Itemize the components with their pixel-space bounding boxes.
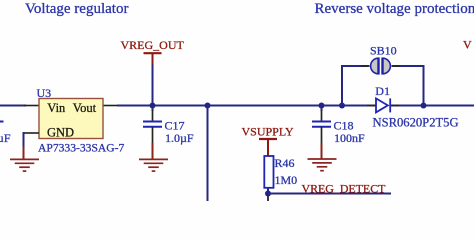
pin C17 top bbox=[152, 110, 154, 121]
wire to C18 bbox=[321, 106, 323, 112]
power port VSUPPLY bar bbox=[259, 138, 277, 140]
wire ground red segment U3 bbox=[23, 147, 25, 160]
junction dot C18 bbox=[319, 103, 325, 109]
pin SB10 right bbox=[392, 65, 401, 67]
capacitor C17 bbox=[143, 122, 162, 127]
wire ground red segment C18 bbox=[321, 143, 323, 159]
solder bridge SB10 bbox=[371, 58, 391, 75]
power port VREG_OUT stem bbox=[152, 53, 154, 65]
pin U3 Vout bbox=[103, 105, 119, 107]
junction dot VREG_DETECT bbox=[265, 191, 271, 197]
svg-text:VREG_OUT: VREG_OUT bbox=[121, 38, 185, 52]
svg-text:U3: U3 bbox=[37, 86, 52, 100]
junction dot SB10 right riser bbox=[421, 103, 427, 109]
svg-text:Voltage regulator: Voltage regulator bbox=[25, 1, 128, 17]
wire R46 to VREG_DETECT net bbox=[267, 188, 269, 194]
svg-text:NSR0620P2T5G: NSR0620P2T5G bbox=[373, 116, 459, 130]
pin off-page below junction bbox=[267, 194, 269, 201]
resistor R46 bbox=[264, 156, 273, 188]
wire down off-page bbox=[207, 106, 209, 202]
ground symbol C17 bbox=[139, 159, 168, 171]
svg-text:Reverse voltage protection: Reverse voltage protection bbox=[315, 1, 474, 17]
diode D1 bbox=[376, 98, 390, 112]
svg-text:R46: R46 bbox=[275, 156, 295, 170]
pin D1 anode bbox=[367, 105, 376, 107]
wire to C17 bbox=[152, 106, 154, 112]
svg-text:VSUPPLY: VSUPPLY bbox=[242, 125, 294, 139]
svg-text:AP7333-33SAG-7: AP7333-33SAG-7 bbox=[38, 142, 125, 155]
wire ground red segment C17 bbox=[152, 143, 154, 160]
ground symbol C18 bbox=[308, 159, 337, 171]
capacitor plate fragment left edge bbox=[0, 121, 4, 123]
capacitor C18 bbox=[312, 122, 331, 127]
svg-text:100nF: 100nF bbox=[334, 131, 365, 145]
pin U3 Vin bbox=[24, 105, 39, 107]
junction dot VREG_OUT / C17 bbox=[150, 103, 156, 109]
pin SB10 left bbox=[361, 65, 370, 67]
component U3 body bbox=[39, 99, 103, 139]
pin U3 GND bbox=[24, 132, 39, 134]
power port VREG_OUT bar bbox=[144, 52, 162, 54]
wire VREG_OUT to main net bbox=[152, 65, 154, 106]
power port VSUPPLY stem bbox=[267, 139, 269, 156]
pin C18 top bbox=[321, 110, 323, 121]
wire main net from diode cathode to right edge bbox=[390, 105, 474, 107]
wire SB10 left riser bbox=[342, 66, 369, 106]
svg-text:Vin: Vin bbox=[47, 101, 66, 115]
svg-text:V: V bbox=[463, 38, 472, 52]
wire VREG_DETECT bbox=[268, 193, 391, 195]
junction dot SB10 left riser bbox=[339, 103, 345, 109]
svg-text:Vout: Vout bbox=[73, 101, 97, 115]
svg-text:1M0: 1M0 bbox=[275, 173, 298, 187]
svg-text:1.0µF: 1.0µF bbox=[165, 131, 194, 145]
wire SB10 right riser bbox=[392, 66, 423, 106]
pin C18 bottom bbox=[321, 127, 323, 144]
wire main net from Vout to diode anode bbox=[117, 105, 376, 107]
pin D1 cathode bbox=[390, 105, 399, 107]
ground symbol U3 bbox=[10, 159, 39, 171]
svg-text:D1: D1 bbox=[375, 84, 390, 98]
wire main net left segment bbox=[0, 105, 26, 107]
svg-text:VREG_DETECT: VREG_DETECT bbox=[302, 181, 387, 195]
svg-text:GND: GND bbox=[47, 126, 74, 140]
svg-text:SB10: SB10 bbox=[370, 43, 397, 57]
junction dot mid net bbox=[205, 103, 211, 109]
pin C17 bottom bbox=[152, 127, 154, 144]
wire GND elbow bbox=[24, 133, 25, 148]
svg-text:0µF: 0µF bbox=[0, 131, 11, 145]
